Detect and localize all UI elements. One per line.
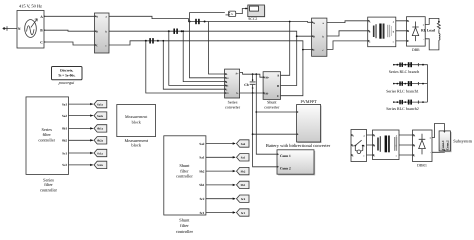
wire source B to block1 <box>44 30 95 31</box>
svg-text:converter: converter <box>264 104 280 109</box>
wires xfmr1 to DBR <box>396 21 407 41</box>
fan wire to port C1 <box>146 41 225 93</box>
svg-text:block: block <box>131 143 141 148</box>
shunt filter controller block <box>164 136 206 215</box>
fan wire to port A <box>209 22 225 75</box>
DBR diode <box>412 22 418 42</box>
svg-text:Sc2a: Sc2a <box>97 163 103 167</box>
svg-text:Measurement: Measurement <box>125 114 148 119</box>
svg-text:controller: controller <box>38 138 55 143</box>
svg-text:A: A <box>40 15 43 19</box>
svg-text:B: B <box>313 35 315 38</box>
port arrows transformer1 <box>368 20 370 42</box>
transformer 1 windings <box>373 24 392 39</box>
voltage measurement tap <box>190 13 225 22</box>
svg-text:C: C <box>277 94 279 98</box>
transformer block 1 <box>368 17 396 47</box>
svg-text:B: B <box>277 84 279 88</box>
svg-text:Sb1: Sb1 <box>241 183 246 187</box>
svg-text:controller: controller <box>176 229 194 234</box>
svg-text:controller: controller <box>176 174 193 179</box>
capacitor Cb <box>250 73 256 94</box>
svg-text:Shunt: Shunt <box>179 217 190 222</box>
svg-text:Conn 1: Conn 1 <box>280 154 291 158</box>
svg-text:controller: controller <box>40 187 58 192</box>
pv tap - <box>252 133 254 135</box>
svg-text:B: B <box>96 30 98 33</box>
shunt out A wire <box>281 22 290 76</box>
dc bus bottom <box>240 92 264 94</box>
wire DBR1 + to subsystem <box>432 124 444 138</box>
fan wire to port B <box>183 31 224 81</box>
svg-text:Sb1: Sb1 <box>62 127 68 131</box>
load resistor <box>437 22 440 30</box>
svg-text:Conn.1: Conn.1 <box>441 140 445 150</box>
svg-text:Sc2: Sc2 <box>200 197 205 201</box>
svg-text:Conn.2: Conn.2 <box>446 140 450 150</box>
svg-text:Battery with bidirectional con: Battery with bidirectional converter <box>266 143 331 148</box>
DBR1 block <box>413 130 433 162</box>
svg-text:Ts = 5e-06s.: Ts = 5e-06s. <box>58 74 75 78</box>
svg-text:S+: S+ <box>236 72 239 75</box>
arrow <box>31 19 38 28</box>
port arrows DBR1 <box>413 134 415 156</box>
DBR1 diode <box>419 134 426 155</box>
svg-text:PVMPPT: PVMPPT <box>300 99 317 104</box>
wires breaker to xfmr2 <box>367 135 373 155</box>
wire source A to block1 <box>44 15 95 17</box>
svg-text:N: N <box>18 27 21 31</box>
svg-text:Sa2a: Sa2a <box>97 114 103 118</box>
load inductor <box>439 30 440 40</box>
wire block2 b to xfmr1 <box>327 31 368 36</box>
series transformer c <box>145 38 159 43</box>
series RLC branch row 1 <box>393 62 427 102</box>
PV MPPT block <box>298 106 322 144</box>
fan wire to port B1 <box>169 31 225 85</box>
phase b wire <box>109 31 312 36</box>
wires xfmr2 to DBR1 <box>399 135 413 155</box>
svg-text:filter: filter <box>180 223 189 228</box>
port arrows block2 <box>312 21 314 50</box>
svg-text:Sb2: Sb2 <box>62 139 68 143</box>
svg-text:SH-: SH- <box>264 92 268 95</box>
phase c wire <box>109 41 312 50</box>
svg-text:Conn 2: Conn 2 <box>280 166 291 170</box>
svg-text:Sa1: Sa1 <box>199 156 204 160</box>
port arrows shunt converter <box>263 76 265 94</box>
svg-text:Sc1: Sc1 <box>241 211 246 215</box>
series RLC branch row 3 <box>393 100 427 105</box>
series RLC branch row 2 <box>393 81 427 86</box>
svg-text:block: block <box>132 119 142 124</box>
svg-text:DBR: DBR <box>412 48 420 52</box>
svg-text:Series RLC branch1: Series RLC branch1 <box>386 88 418 93</box>
svg-text:Sc2: Sc2 <box>62 163 67 167</box>
svg-text:converter: converter <box>225 104 241 109</box>
three-phase block 2 <box>312 18 327 56</box>
port arrows series converter <box>225 73 227 94</box>
svg-text:-: - <box>423 37 424 41</box>
neutral stub <box>3 26 18 30</box>
wire v to scope <box>236 9 248 14</box>
port arrows breaker <box>351 134 353 156</box>
svg-text:C: C <box>40 40 43 44</box>
svg-text:filter: filter <box>43 132 52 137</box>
svg-text:-: - <box>430 151 431 155</box>
svg-text:powergui: powergui <box>58 80 76 85</box>
svg-text:Sb1a: Sb1a <box>97 127 104 131</box>
wire DBR1 - to subsystem <box>432 151 444 152</box>
phase a wire <box>109 16 312 22</box>
svg-text:c: c <box>396 155 397 158</box>
transformer 2 windings <box>377 136 397 153</box>
three-phase source block <box>17 11 44 49</box>
shunt out B wire <box>281 36 297 85</box>
svg-text:Sb2: Sb2 <box>241 169 246 173</box>
goto tags shunt <box>206 140 249 147</box>
port arrows block1 <box>95 15 97 46</box>
wire block2 c to xfmr1 <box>327 41 368 50</box>
dc+ drop wire <box>255 73 257 75</box>
svg-text:+: + <box>423 23 425 27</box>
measurement block <box>117 105 156 137</box>
fan wire to port A1 <box>190 22 225 78</box>
DBR block <box>407 17 426 46</box>
svg-text:Sb2a: Sb2a <box>97 139 104 143</box>
powergui block <box>52 67 83 80</box>
source circle <box>25 20 37 38</box>
svg-text:Sc2: Sc2 <box>241 197 246 201</box>
port arrows subsystem <box>443 131 445 151</box>
voltage measurement stub <box>226 14 229 16</box>
svg-text:Sb2: Sb2 <box>199 169 205 173</box>
svg-text:Sa2: Sa2 <box>199 142 204 146</box>
svg-text:Discrete,: Discrete, <box>60 69 73 73</box>
svg-text:Sc1: Sc1 <box>62 151 67 155</box>
shunt converter block <box>263 72 280 100</box>
svg-text:Sa1: Sa1 <box>62 102 67 106</box>
voltage measurement block <box>229 11 236 17</box>
port arrows transformer2 <box>373 134 375 156</box>
port arrows DBR <box>407 20 409 42</box>
svg-text:Subsystem: Subsystem <box>453 139 472 144</box>
wire source C to block1 <box>44 42 95 45</box>
svg-text:c: c <box>393 40 394 43</box>
svg-text:v: v <box>231 12 233 16</box>
svg-text:Sc1: Sc1 <box>200 211 205 215</box>
svg-text:DBR1: DBR1 <box>417 163 427 167</box>
battery block <box>278 151 315 175</box>
svg-text:C: C <box>96 44 98 47</box>
svg-text:SH+: SH+ <box>264 76 269 79</box>
svg-text:A: A <box>96 16 98 19</box>
subsystem block <box>440 132 451 152</box>
wire block2 a to xfmr1 <box>327 21 368 23</box>
svg-text:+: + <box>429 136 431 140</box>
svg-text:Sc1a: Sc1a <box>97 151 103 155</box>
svg-text:Sa1: Sa1 <box>241 156 246 160</box>
svg-text:Sa2: Sa2 <box>62 114 67 118</box>
svg-text:Sb1: Sb1 <box>199 183 205 187</box>
svg-text:C: C <box>313 49 315 52</box>
svg-text:SCC2: SCC2 <box>248 17 257 21</box>
fan wire to port C <box>163 41 224 89</box>
svg-text:Series RLC branch2: Series RLC branch2 <box>386 106 418 111</box>
load + wire <box>425 18 439 24</box>
transformer block 2 <box>373 130 400 160</box>
breaker icon <box>354 140 363 153</box>
dc bus top <box>240 73 264 78</box>
port arrows PV MPPT <box>297 111 299 135</box>
svg-text:Sa1a: Sa1a <box>97 102 103 106</box>
series filter controller block <box>26 97 69 174</box>
shunt out C wire <box>281 50 303 96</box>
series converter block <box>225 69 240 98</box>
source output nubs <box>44 15 46 43</box>
pv tap + <box>255 111 257 113</box>
scope SCC2 <box>249 6 266 18</box>
svg-text:RL Load: RL Load <box>421 28 435 32</box>
sine wave <box>27 26 34 35</box>
three-phase block 1 <box>95 13 110 53</box>
goto tags series <box>69 100 107 107</box>
svg-text:c: c <box>364 155 365 158</box>
series transformer b <box>168 29 183 34</box>
svg-text:Sa2: Sa2 <box>241 142 246 146</box>
svg-text:Cb: Cb <box>244 83 249 87</box>
port arrows battery <box>277 153 279 168</box>
load - wire <box>425 39 439 50</box>
dc- drop wire <box>253 93 277 167</box>
svg-text:S-: S- <box>236 92 238 95</box>
breaker block <box>351 130 367 162</box>
series transformer a <box>189 19 206 24</box>
svg-text:Series RLC branch: Series RLC branch <box>389 69 419 74</box>
svg-text:415 V, 50 Hz: 415 V, 50 Hz <box>19 4 42 9</box>
